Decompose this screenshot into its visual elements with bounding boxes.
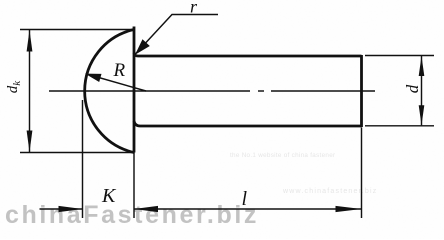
svg-text:the No.1 website of china fast: the No.1 website of china fastener [230, 152, 335, 159]
svg-text:K: K [101, 185, 117, 207]
svg-text:R: R [113, 60, 126, 81]
svg-text:chinaFastener.biz: chinaFastener.biz [5, 201, 259, 229]
svg-text:www.chinafastener.biz: www.chinafastener.biz [282, 188, 377, 195]
svg-text:d: d [403, 84, 422, 93]
svg-text:l: l [242, 188, 248, 210]
svg-text:r: r [190, 0, 198, 17]
